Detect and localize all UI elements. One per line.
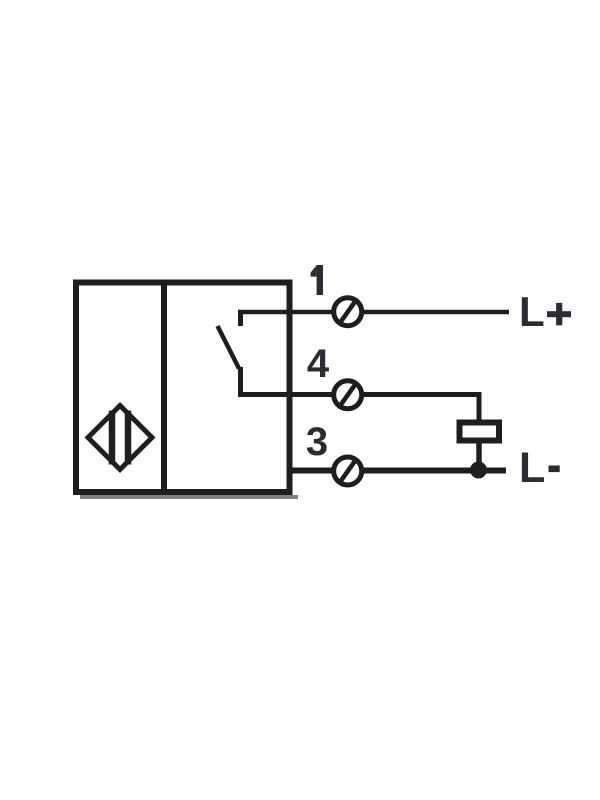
svg-text:3: 3 [306,420,328,464]
terminal 3 [334,457,362,485]
wire 3 / L- rail [291,468,506,474]
label L+ [519,288,571,335]
svg-text:4: 4 [307,342,330,386]
switch S1 [218,311,241,396]
divider [161,283,167,491]
wire load to L- rail [476,440,482,471]
svg-text:L: L [519,444,545,492]
load resistor [460,423,500,441]
label L- [519,444,560,492]
junction [470,462,487,479]
terminal 1 [334,298,362,326]
inductive sensor symbol [88,406,152,470]
sensor body [76,283,290,493]
wire 1 (switch to terminal 1 to L+) [238,310,509,315]
wire 4 (switch to terminal 4 to load) [238,395,479,424]
label 1 [311,265,323,295]
terminal 4 [334,381,362,409]
svg-text:L: L [519,288,545,335]
